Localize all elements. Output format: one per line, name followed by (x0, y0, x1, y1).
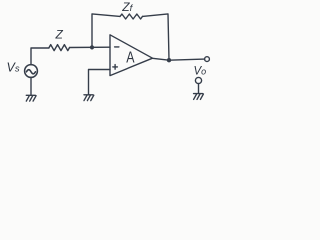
junction node at inverting input (90, 45, 94, 49)
op-amp inverting input marking (115, 46, 119, 48)
wire source bottom to ground (30, 77, 32, 95)
resistor Zf (120, 14, 143, 19)
wire resistor Z to inverting input (70, 46, 111, 48)
ac voltage source Vs (25, 65, 38, 78)
svg-text:Zf: Zf (121, 0, 133, 14)
svg-text:Vo: Vo (194, 66, 207, 78)
label Z (55, 28, 64, 42)
label Zf (121, 0, 133, 14)
op-amp gain label A (126, 48, 135, 66)
wire non-inverting input to ground (89, 70, 111, 95)
resistor Z (49, 45, 69, 51)
svg-text:Vs: Vs (7, 61, 20, 75)
output terminal (205, 57, 210, 62)
feedback wire up from junction and across (92, 14, 120, 48)
label Vo (194, 66, 207, 78)
lower output port terminal (195, 77, 201, 83)
junction node at output (167, 58, 171, 62)
label Vs (7, 61, 20, 75)
ground at non-inverting input (84, 95, 94, 101)
wire lower terminal to ground (198, 84, 200, 94)
ground at output port (194, 94, 204, 100)
ground at source (26, 95, 36, 101)
svg-text:A: A (126, 48, 135, 66)
op-amp non-inverting input marking (113, 65, 118, 70)
wire source top to resistor Z (31, 48, 49, 65)
output wire from op-amp to terminal (153, 58, 205, 60)
svg-text:Z: Z (55, 28, 64, 42)
op-amp U1 triangle (110, 35, 153, 76)
feedback wire from Zf down to output node (143, 14, 170, 60)
